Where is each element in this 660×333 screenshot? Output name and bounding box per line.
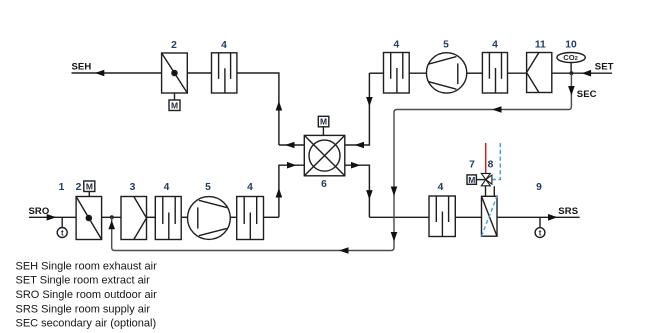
wire damper2 to filter4 <box>187 72 211 74</box>
fan 5 (supply) <box>188 197 231 240</box>
svg-text:t: t <box>61 229 64 238</box>
svg-text:3: 3 <box>130 182 136 193</box>
svg-text:10: 10 <box>565 40 577 51</box>
wire filter to coil <box>455 216 481 218</box>
wire supply riser to exchanger lower-left port <box>279 165 304 217</box>
wire arrow out exchanger lower-right right <box>351 162 361 169</box>
arrows (flow direction) <box>47 70 591 254</box>
wire damper2 to junction to box3 <box>102 216 121 218</box>
wire SEH outlet <box>72 72 162 74</box>
wire fan to filter <box>230 216 236 218</box>
wire arrow SEC vertical down 2 <box>391 232 398 242</box>
svg-text:M: M <box>171 100 178 110</box>
sensor letters <box>61 229 542 238</box>
sensor t1 (outdoor) <box>61 217 63 227</box>
wire arrow supply downcomer down <box>366 190 373 200</box>
svg-text:11: 11 <box>535 40 546 51</box>
svg-text:SRS: SRS <box>558 206 578 217</box>
filter 4 (exhaust) <box>212 53 237 93</box>
heating pipe (red) <box>485 143 487 174</box>
filter 4 (extract right 2) <box>482 53 507 94</box>
svg-text:4: 4 <box>247 182 253 193</box>
damper 11 (secondary air) <box>527 53 552 93</box>
damper 2 (exhaust) <box>162 53 188 93</box>
wire arrow extract downcomer down <box>366 97 373 107</box>
wire arrow into exchanger upper-right left <box>355 142 365 149</box>
svg-text:SEH Single room exhaust air: SEH Single room exhaust air <box>16 260 158 272</box>
wire arrow SEC vertical down 1 <box>391 187 398 197</box>
wire extract downcomer to exchanger upper-right port <box>345 73 370 145</box>
wire filter to fan <box>181 216 187 218</box>
wire arrow SET left <box>582 70 592 77</box>
svg-text:M: M <box>320 117 327 127</box>
svg-text:SRS Single room supply air: SRS Single room supply air <box>16 303 151 315</box>
wire supply run to filter <box>369 216 429 218</box>
wire box4 to fan <box>409 72 426 74</box>
sensor 10 CO2 <box>557 53 585 63</box>
wire arrow SEC riser up into supply <box>108 220 115 229</box>
valve 8 (3-way) <box>481 173 492 185</box>
wire arrow SEH left <box>95 70 105 77</box>
svg-text:8: 8 <box>488 160 494 171</box>
wire arrow SEC horizontal left <box>492 106 502 113</box>
svg-text:4: 4 <box>221 40 227 51</box>
svg-text:6: 6 <box>321 179 327 190</box>
svg-text:SEC secondary air (optional): SEC secondary air (optional) <box>16 318 157 330</box>
wire arrow SEC down <box>568 86 575 96</box>
fan 5 (extract) <box>426 53 466 93</box>
wire SET inlet <box>571 72 612 74</box>
node CO2 junction <box>569 71 573 75</box>
svg-text:5: 5 <box>205 182 211 193</box>
node SEC supply junction <box>110 215 114 219</box>
wire arrow SRO right <box>47 214 57 221</box>
sensor t (supply) <box>539 217 541 227</box>
wire SRO inlet <box>29 216 76 218</box>
svg-text:5: 5 <box>443 40 449 51</box>
svg-text:SRO: SRO <box>29 206 50 217</box>
actuator M 7 <box>467 175 497 236</box>
svg-text:M: M <box>86 181 93 191</box>
wire filter4 to riser elbow <box>237 73 279 145</box>
svg-text:4: 4 <box>438 182 444 193</box>
svg-text:1: 1 <box>59 182 65 193</box>
svg-text:SEH: SEH <box>72 62 92 73</box>
svg-text:SEC: SEC <box>577 89 597 100</box>
wire arrow into SEH branch left <box>285 142 295 149</box>
svg-text:2: 2 <box>171 40 177 51</box>
wire arrow supply riser up <box>276 188 283 198</box>
M letters <box>86 100 475 191</box>
wire extract elbow <box>369 72 383 74</box>
stream labels <box>29 62 614 218</box>
cooling pipe (blue dashed, optional) <box>493 143 501 180</box>
svg-text:4: 4 <box>394 40 400 51</box>
damper 2 (outdoor) <box>76 197 102 240</box>
wire exchanger lower-right port downcomer <box>345 165 370 217</box>
wire box11 to junction <box>552 72 572 74</box>
svg-text:4: 4 <box>164 182 170 193</box>
svg-text:M: M <box>468 175 475 185</box>
legend text <box>16 260 158 329</box>
wire SEC return (optional, gray) <box>112 73 572 250</box>
filter 4 (supply right) <box>429 196 455 237</box>
svg-text:4: 4 <box>492 40 498 51</box>
component 3 (supply) <box>121 197 147 240</box>
svg-text:7: 7 <box>469 160 475 171</box>
wire arrow SRS right <box>548 214 558 221</box>
wire box4 to box11 <box>508 72 527 74</box>
wire arrow riser up (exhaust) <box>276 101 283 111</box>
rotary heat exchanger 6 <box>304 135 345 175</box>
valve to coil pipes <box>485 186 487 197</box>
wire arrow into exchanger lower-left right <box>287 162 297 169</box>
svg-text:t: t <box>539 229 542 238</box>
svg-text:SET Single room extract air: SET Single room extract air <box>16 275 151 287</box>
filter 4 (supply 1) <box>155 197 181 240</box>
wire exchanger upper-left port <box>279 144 304 146</box>
wire coil to SRS outlet <box>497 216 580 218</box>
wire filter to riser <box>264 216 279 218</box>
wire fan to box4 <box>467 72 483 74</box>
coil 9 (heater/cooler) <box>482 196 498 236</box>
labels: component numbers <box>59 40 577 194</box>
filter 4 (extract right 1) <box>384 53 410 94</box>
wire arrow SEC bottom left <box>339 247 349 254</box>
coil blue diagonal <box>482 196 498 236</box>
svg-text:SRO Single room outdoor air: SRO Single room outdoor air <box>16 289 158 301</box>
wire box3 to filter <box>147 216 156 218</box>
svg-text:2: 2 <box>76 182 82 193</box>
filter 4 (supply 2) <box>237 197 264 240</box>
svg-text:SET: SET <box>595 62 614 73</box>
svg-text:9: 9 <box>536 182 542 193</box>
